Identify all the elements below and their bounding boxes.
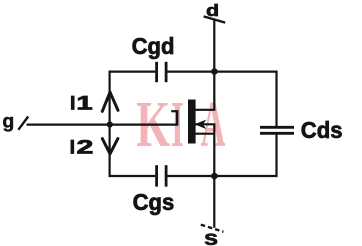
transistor Q1 gate plate	[171, 111, 178, 126]
wire top row right (Cgd right plate to right branch corner)	[167, 70, 276, 72]
wire drain lead (d terminal down to MOSFET drain)	[196, 19, 215, 110]
svg-text:I: I	[70, 93, 75, 115]
transistor Q1 channel bar	[188, 100, 196, 144]
node D junction dot	[211, 68, 218, 75]
node G junction dot	[107, 121, 113, 127]
svg-text:d: d	[206, 2, 219, 20]
svg-text:Cgd: Cgd	[132, 32, 175, 59]
terminal g slash	[18, 117, 28, 130]
svg-text:I: I	[70, 137, 75, 159]
watermark KIA	[136, 88, 225, 161]
svg-text:g: g	[2, 111, 14, 133]
wire gate lead (g terminal to gate plate)	[27, 123, 178, 125]
terminal s slash (dashed)	[201, 225, 224, 232]
wire source lead and main lower vertical to s terminal	[196, 124, 215, 227]
wire bottom row left (G branch to Cgs left plate)	[110, 175, 156, 177]
svg-text:1: 1	[76, 93, 92, 114]
node S junction dot	[211, 173, 218, 180]
svg-text:Cgs: Cgs	[133, 188, 175, 215]
capacitor Cds plates	[260, 127, 294, 133]
wire top row left (G branch to Cgd left plate)	[110, 70, 156, 72]
current arrow I2 (down)	[102, 139, 118, 154]
svg-text:s: s	[204, 226, 218, 246]
capacitor Cgd plates	[157, 62, 167, 82]
wire right branch upper (corner down to Cds top plate)	[275, 71, 277, 127]
current arrow I1 (up)	[102, 92, 118, 111]
wire right branch lower (Cds bottom plate to bottom row corner)	[275, 134, 277, 177]
terminal d slash	[204, 16, 226, 22]
wire bottom row right (S node to right branch corner)	[214, 175, 276, 177]
svg-text:Cds: Cds	[301, 116, 343, 143]
capacitor Cgs plates	[157, 165, 167, 186]
wire source bar connection	[196, 133, 215, 135]
wire bottom row mid (Cgs right plate to S node)	[167, 175, 214, 177]
transistor Q1 body arrow	[196, 121, 205, 128]
wire left gate branch vertical	[108, 71, 110, 178]
svg-text:2: 2	[77, 137, 94, 158]
